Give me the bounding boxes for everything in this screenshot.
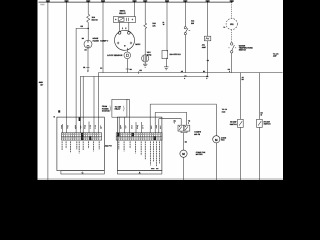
heater switch S6 [257, 119, 263, 127]
S4 label [239, 44, 254, 51]
svg-text:ECU-B: ECU-B [92, 19, 99, 22]
arrow to bus [87, 71, 89, 73]
strip1 wire color labels [61, 125, 102, 130]
wire HB to relay 2 [155, 112, 186, 125]
small text above tray [151, 168, 154, 169]
svg-text:SW: SW [191, 22, 194, 25]
wire S5 to bottom [239, 127, 241, 180]
S3 label [191, 20, 195, 25]
wire column W2 [66, 2, 68, 133]
water temp switch S4 [229, 43, 237, 73]
label FL [224, 26, 226, 28]
page edge line bottom [38, 178, 284, 180]
junction tick on bus A [138, 71, 140, 74]
bus A horizontal [98, 72, 282, 74]
merge wire to motor 1 [181, 131, 187, 132]
connector tick [86, 66, 89, 68]
ignition source circle [226, 18, 237, 29]
ignition dashed feed [231, 2, 233, 18]
drop D1 from bus A [239, 73, 241, 120]
svg-text:1: 1 [188, 121, 189, 124]
VSV V1 [142, 55, 149, 64]
svg-text:MO FB: MO FB [194, 133, 200, 136]
right letterbox bar [283, 0, 320, 180]
ECU box C [57, 117, 104, 171]
label near HA corner [222, 108, 228, 113]
left letterbox bar [0, 0, 38, 180]
A/C switch S3 [184, 27, 190, 73]
strip2 marked pins [117, 133, 119, 137]
svg-text:B4: B4 [185, 141, 187, 144]
wire to ground [165, 58, 167, 67]
R2 label [170, 53, 182, 56]
strip2 feed wires [119, 99, 159, 133]
box A name tray [117, 171, 161, 174]
page background [0, 0, 320, 180]
svg-text:B6: B6 [82, 37, 84, 40]
wire column W6 with fuse [144, 2, 147, 55]
wire comp to sensor [126, 48, 128, 52]
wire HC to relay 1 [159, 119, 181, 126]
bus junction ticks [48, 1, 232, 3]
svg-text:B5: B5 [242, 78, 244, 81]
wire branch to column [76, 28, 88, 132]
fuse F2 [144, 23, 147, 29]
svg-text:SOURCE: SOURCE [102, 109, 110, 112]
from power source tag [102, 105, 110, 112]
wire HA to condenser fan [150, 104, 216, 136]
wire M2 to bottom [215, 143, 217, 180]
wire M1 to bottom [183, 157, 185, 180]
condenser fan motor M2 [213, 136, 220, 143]
defogger switch S5 [238, 119, 244, 127]
svg-text:SWITCH: SWITCH [239, 49, 247, 52]
wire column W8 [184, 2, 186, 27]
wire column W5 [134, 2, 136, 17]
wire [87, 22, 89, 40]
svg-text:C: C [82, 172, 84, 175]
pass-through connector box [112, 99, 127, 117]
fuse label 15A ECU-B [92, 16, 99, 22]
node junction dot [87, 28, 89, 30]
svg-text:15A HTR RLY: 15A HTR RLY [170, 53, 182, 56]
thermistor box U3 [204, 36, 210, 76]
VSV label [147, 51, 152, 56]
label TO A/C AMP [273, 52, 279, 57]
ECU box A [117, 117, 161, 171]
svg-text:RELAY: RELAY [115, 108, 122, 111]
svg-text:FILTER: FILTER [93, 39, 100, 42]
box C name tray [61, 171, 104, 174]
svg-text:MOTOR: MOTOR [196, 153, 203, 156]
bus B horizontal [80, 75, 207, 77]
tick label on W4 [100, 68, 102, 69]
svg-text:SWITCH: SWITCH [230, 123, 238, 126]
fan relay contacts K2 [178, 125, 190, 150]
ground G1 [143, 64, 147, 67]
relay K1 label [119, 9, 126, 15]
condenser fan motor M1 [180, 150, 187, 157]
svg-text:B1: B1 [83, 66, 85, 69]
svg-text:RELAY: RELAY [119, 12, 126, 15]
svg-text:COMP: COMP [100, 40, 107, 43]
below-bus wire labels [184, 59, 209, 80]
strip2 wire color labels [120, 125, 162, 130]
drop D2 from bus A [258, 73, 260, 120]
connector stub [58, 110, 60, 112]
svg-text:(A/C): (A/C) [147, 53, 152, 56]
relay pin wires [119, 22, 121, 31]
wire column W7 [166, 2, 168, 51]
svg-text:LOCK SENSOR: LOCK SENSOR [107, 54, 123, 57]
wire sensor to bus [126, 59, 129, 73]
wire S6 to bottom [258, 127, 260, 180]
cropped header text specks above bus [46, 0, 234, 2]
svg-text:B9: B9 [85, 49, 87, 52]
svg-text:A42 PTr: A42 PTr [105, 144, 112, 147]
riser to HA [149, 104, 151, 133]
noise filter label [93, 37, 100, 42]
connector blob on ECU C top [79, 117, 81, 121]
relay K1 [113, 17, 135, 32]
wire column W4 [102, 2, 104, 73]
connector strip 2 [116, 133, 162, 140]
fuse F2 label [152, 22, 156, 28]
faint fuse label near W1 top [40, 4, 44, 5]
svg-text:A: A [139, 172, 141, 175]
ground G2 [164, 67, 168, 70]
wire column W9 [207, 2, 209, 36]
strip1 marked pins [81, 133, 83, 140]
connector strip 1 [61, 133, 101, 140]
label left of W7 [163, 21, 165, 26]
dashed wire [231, 30, 233, 42]
A/C amp label [202, 44, 207, 49]
wire [87, 48, 89, 71]
left note text [39, 81, 44, 86]
connector tick [126, 68, 129, 70]
top power bus [39, 1, 233, 3]
wire column W3 to fuse [87, 2, 89, 14]
wire column W1 [47, 2, 49, 180]
svg-text:SWITCH: SWITCH [264, 123, 272, 126]
riser to HC [158, 119, 160, 133]
svg-text:MG/C: MG/C [135, 43, 141, 46]
wire label G01 [228, 68, 230, 73]
svg-text:B4: B4 [130, 68, 132, 71]
compressor P1 [115, 30, 135, 50]
K2 labels [174, 119, 176, 124]
heater resistor R2 box [162, 50, 168, 58]
strip1 pin name texts [62, 141, 99, 153]
noise filter U2 [84, 40, 92, 48]
strip2 pin name texts [119, 141, 160, 166]
strip pin numbers texture [63, 134, 160, 139]
fuse F1 [87, 14, 90, 22]
lock sensor B2 [124, 52, 131, 59]
riser to HB [154, 112, 156, 132]
riser wires to connector strip 1 [63, 73, 99, 133]
